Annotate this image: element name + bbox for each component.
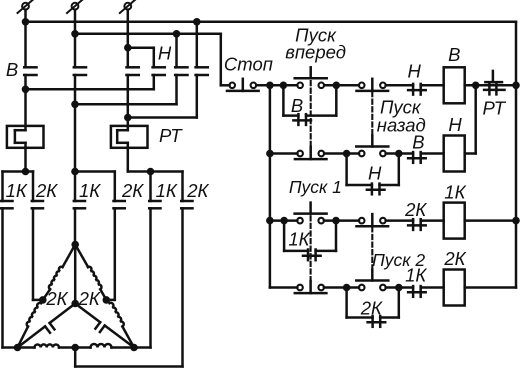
wire rung1 c xyxy=(386,84,413,87)
coil 1K xyxy=(444,203,465,239)
node coil B output xyxy=(472,82,480,90)
contact 1K phase A xyxy=(1,200,12,203)
svg-text:В: В xyxy=(448,44,460,65)
wire H2 column upper xyxy=(175,34,178,68)
svg-text:2К: 2К xyxy=(186,180,209,201)
wire rung3 a xyxy=(270,219,297,222)
thermal relay PT heater phase C xyxy=(111,126,148,148)
wire right rail xyxy=(515,22,518,288)
wire pair3 1K branch lower xyxy=(149,208,152,347)
mechanical link nazad xyxy=(371,92,373,134)
wire phase C upper xyxy=(127,10,130,68)
wire H3 column upper xyxy=(196,22,199,68)
node bottom centre xyxy=(71,344,79,352)
wire H1 column upper xyxy=(153,48,156,68)
node bus L1 tap to H3 xyxy=(193,18,201,26)
node 2K holding rejoin xyxy=(395,284,403,292)
svg-text:1К: 1К xyxy=(288,229,310,250)
svg-text:Пуск 1: Пуск 1 xyxy=(289,177,342,197)
winding right slope xyxy=(75,245,88,268)
wire rung1 b xyxy=(324,84,359,87)
svg-text:2К: 2К xyxy=(78,288,101,309)
wire pair3 2K branch upper xyxy=(181,172,184,202)
node 1K holding split xyxy=(280,217,288,225)
wire 2K holding branch xyxy=(345,288,348,318)
node phase B / cross 2 xyxy=(71,101,79,109)
svg-text:2К: 2К xyxy=(121,180,144,201)
phase terminal 3 xyxy=(124,3,131,10)
svg-text:1К: 1К xyxy=(6,180,28,201)
wire phase A mid xyxy=(24,75,27,130)
node winding tap right xyxy=(103,296,111,304)
wire phase A below heater xyxy=(24,143,27,172)
pushbutton Pusk 2 (NO) xyxy=(359,285,365,291)
wire rung1 a xyxy=(256,84,297,87)
svg-text:1К: 1К xyxy=(156,180,178,201)
svg-text:Н: Н xyxy=(158,43,172,64)
contact Pusk 2 NC (rung3) xyxy=(359,218,365,224)
contact B interlock (rung2) xyxy=(412,152,415,163)
wire rung2 e xyxy=(465,152,476,155)
coil 2K xyxy=(444,270,465,306)
svg-text:2К: 2К xyxy=(35,180,58,201)
wire pair2 2K arm xyxy=(75,170,115,173)
svg-text:РТ: РТ xyxy=(159,125,183,146)
wire phase C below heater xyxy=(127,143,130,172)
contact 2K phase C xyxy=(181,200,192,203)
contact 2K phase B xyxy=(114,200,125,203)
node winding apex xyxy=(71,241,79,249)
mechanical link vpered xyxy=(310,81,312,146)
contact 2K phase A xyxy=(32,200,43,203)
svg-text:В: В xyxy=(412,132,424,153)
node phase A / cross 1 xyxy=(22,86,30,94)
contact 2K holding xyxy=(371,316,374,327)
node winding tap left xyxy=(39,296,47,304)
coil B xyxy=(444,67,465,103)
svg-text:вперед: вперед xyxy=(285,42,346,63)
node corner left xyxy=(14,344,22,352)
wire stop feeder xyxy=(220,34,223,86)
node bus L2 / phase B xyxy=(71,30,79,38)
wire rung3 e xyxy=(465,219,516,222)
wire rung2 a xyxy=(270,152,298,155)
wire phase C mid xyxy=(127,75,130,130)
winding left slope xyxy=(63,245,76,268)
svg-text:Н: Н xyxy=(368,163,382,184)
wire phase B lower xyxy=(74,75,77,172)
svg-text:1К: 1К xyxy=(405,265,427,286)
node corner right xyxy=(130,344,138,352)
wire rung2 b xyxy=(324,152,359,155)
pushbutton Pusk 1 (NO) xyxy=(297,218,303,224)
node H holding rejoin xyxy=(395,150,403,158)
wire rung1 d xyxy=(421,84,444,87)
wire pair1 1K branch upper xyxy=(1,172,4,202)
wire rung1 e xyxy=(465,84,516,87)
svg-text:1К: 1К xyxy=(79,180,101,201)
contact 1K holding xyxy=(307,250,310,261)
wire pair1 2K arm xyxy=(26,170,34,173)
wire rung2 c xyxy=(386,152,413,155)
wire rung3 b xyxy=(324,219,359,222)
node phase C / cross 3 xyxy=(124,114,132,122)
wire rung2 d xyxy=(421,152,444,155)
pushbutton Pusk vpered (NO) xyxy=(297,83,303,89)
svg-text:Н: Н xyxy=(448,114,462,135)
node 1K holding rejoin xyxy=(332,217,340,225)
svg-text:Стоп: Стоп xyxy=(224,54,273,75)
node right rail rung3 xyxy=(512,217,520,225)
wire bus L1 xyxy=(26,21,517,24)
svg-text:РТ: РТ xyxy=(482,98,506,119)
wire B holding branch xyxy=(282,85,285,115)
node 2K holding split xyxy=(343,284,351,292)
wire rung4 a xyxy=(270,286,297,289)
contact 2K star right diagonal xyxy=(75,304,100,323)
node pair 1 junction xyxy=(22,168,30,176)
wire H2 column lower xyxy=(175,75,178,104)
mechanical link Pusk2 xyxy=(371,227,373,269)
contact Pusk vpered NC (rung2) xyxy=(297,151,303,157)
pushbutton Stop (NC) xyxy=(229,83,235,89)
node B holding rejoin xyxy=(333,82,341,90)
wire cross line 2 xyxy=(75,103,177,106)
node pair 3 junction xyxy=(147,168,155,176)
wire bus L2 xyxy=(75,33,221,36)
wire cross line 3 xyxy=(128,116,197,119)
contact Pusk nazad NC (rung1) xyxy=(359,83,365,89)
wire rung4 d xyxy=(421,286,444,289)
contactor B main contact phase B xyxy=(74,66,86,69)
wire rung3 c xyxy=(386,219,413,222)
pushbutton Pusk nazad (NO) xyxy=(359,151,365,157)
svg-text:Н: Н xyxy=(408,61,422,82)
svg-text:В: В xyxy=(291,95,303,116)
contact Pusk 1 NC (rung4) xyxy=(297,285,303,291)
coil H xyxy=(444,136,465,172)
node left rail rung1 xyxy=(266,82,274,90)
wire pair2 1K branch lower xyxy=(74,208,77,244)
wire pair1 2K branch upper xyxy=(32,172,35,202)
wire pair3 feed arm xyxy=(128,170,183,173)
contact 2K interlock (rung3) xyxy=(412,219,415,230)
wire bus L3 xyxy=(128,46,154,49)
wire pair1 1K branch lower xyxy=(1,208,4,347)
node pair 2 junction xyxy=(71,168,79,176)
wire pair2 2K branch lower xyxy=(114,208,117,300)
contactor B main contact phase C xyxy=(127,66,139,69)
wire rung4 e xyxy=(465,286,516,289)
wire left rail xyxy=(269,85,272,287)
winding bottom right xyxy=(75,346,90,349)
svg-text:1К: 1К xyxy=(444,181,466,202)
winding bottom left xyxy=(18,346,35,349)
svg-text:В: В xyxy=(6,59,18,80)
contact PT thermal NC xyxy=(492,71,495,82)
svg-text:2К: 2К xyxy=(404,199,427,220)
contact 1K phase C xyxy=(149,200,160,203)
thermal relay PT heater phase A xyxy=(7,126,44,148)
contactor H main contact 2 xyxy=(175,66,187,69)
wire H3 column lower xyxy=(196,75,199,118)
svg-text:2К: 2К xyxy=(45,288,68,309)
contact 1K phase B xyxy=(74,200,85,203)
svg-text:2К: 2К xyxy=(443,248,466,269)
contactor H main contact 1 xyxy=(153,66,165,69)
wire pair1 left arm xyxy=(3,170,26,173)
contactor B main contact phase A xyxy=(24,66,36,69)
contactor H main contact 3 xyxy=(196,66,208,69)
wire pair1 2K branch lower xyxy=(32,208,35,300)
wire 1K holding branch xyxy=(283,221,286,251)
node star point xyxy=(71,300,79,308)
node left rail rung2 xyxy=(266,150,274,158)
wire pair3 2K branch lower xyxy=(181,208,184,366)
contact 1K interlock (rung4) xyxy=(412,286,415,297)
contact H holding xyxy=(371,184,374,195)
wire phase B upper xyxy=(74,10,77,68)
wire rung4 c xyxy=(386,286,413,289)
wire H holding branch xyxy=(345,154,348,186)
wire rung3 d xyxy=(421,219,444,222)
node H holding split xyxy=(343,150,351,158)
mechanical link Pusk1 xyxy=(310,216,312,280)
node bus L1 / phase A xyxy=(22,18,30,26)
wire pair3 1K branch upper xyxy=(149,172,152,202)
wire H1 column lower xyxy=(153,75,156,89)
phase terminal 1 xyxy=(22,3,29,10)
node right rail rung1 xyxy=(512,82,520,90)
wire cross line 1 xyxy=(26,88,154,91)
svg-text:2К: 2К xyxy=(360,298,383,319)
node B holding split xyxy=(280,82,288,90)
node bus L2 tap to H2 xyxy=(173,30,181,38)
phase terminal 2 xyxy=(72,3,79,10)
wire pair2 1K branch upper xyxy=(74,172,77,202)
contact 2K star left diagonal xyxy=(50,304,76,324)
wire rung4 b xyxy=(324,286,359,289)
node bus L3 / phase C xyxy=(124,44,132,52)
wire pair2 2K branch upper xyxy=(114,172,117,202)
wire phase A upper xyxy=(24,10,27,68)
node left rail rung3 xyxy=(266,217,274,225)
contact H interlock (rung1) xyxy=(412,84,415,95)
wire apex to star point xyxy=(74,245,77,304)
contact B holding xyxy=(297,114,300,125)
